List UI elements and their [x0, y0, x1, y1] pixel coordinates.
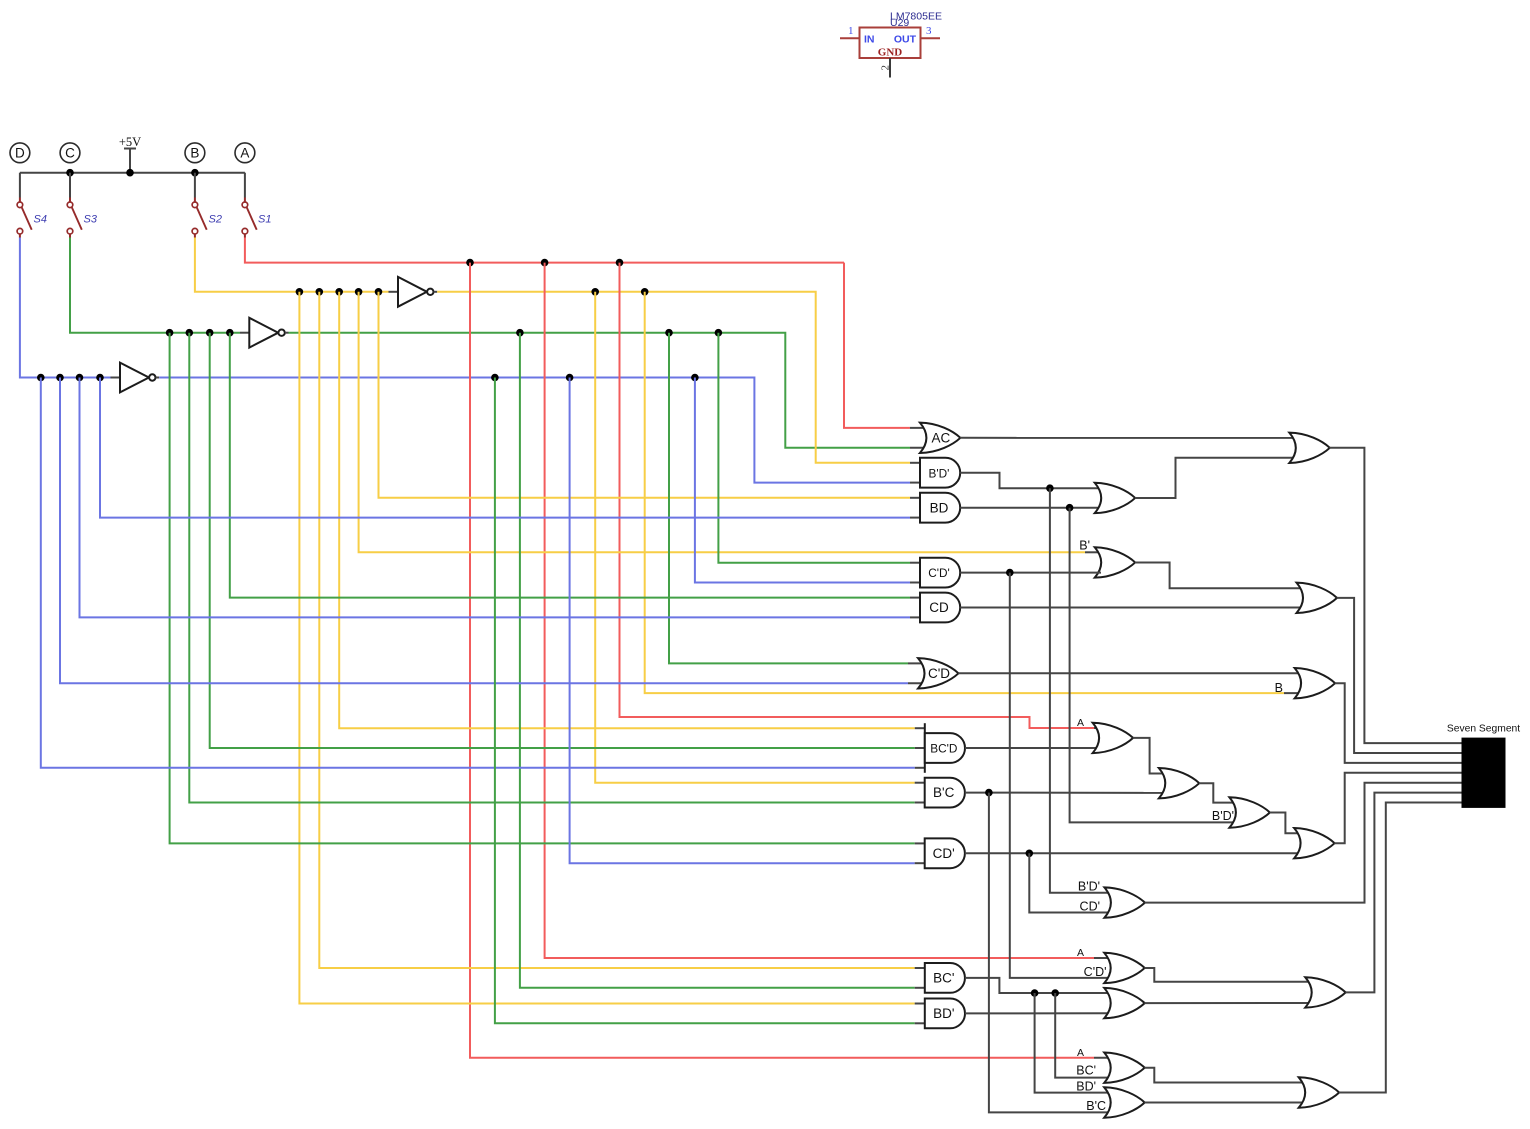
wire OR1 output up to OR7a [1135, 458, 1296, 498]
wire F3 output to 7seg pin6 [1345, 793, 1461, 993]
supply bus wire [20, 172, 245, 174]
svg-text:Seven Segment: Seven Segment [1447, 724, 1520, 735]
wire B' (yellow) inverter output bus [437, 292, 910, 463]
junction B' yellow at x595 [591, 288, 599, 296]
seven segment display [1447, 724, 1520, 808]
wire to OR cascade 2 [1133, 738, 1165, 774]
OR cascade gate 4 [1294, 828, 1335, 858]
inverter output stub (B') [434, 291, 438, 293]
svg-text:A: A [1077, 1047, 1084, 1059]
wire B'D' output [960, 473, 1101, 489]
junction B'D' output [1046, 484, 1054, 492]
svg-text:BD': BD' [1076, 1079, 1096, 1093]
AND gate BD' [925, 999, 965, 1029]
wire bus to switch (D column) [19, 173, 21, 198]
input terminal B [185, 143, 205, 163]
svg-text:C'D: C'D [928, 666, 950, 681]
wire C (green) branch to BC'D gate [210, 333, 915, 748]
inverter input stub (D) [111, 377, 121, 379]
svg-text:S4: S4 [34, 214, 47, 226]
BD' gate input stubs [915, 1003, 925, 1005]
pin 2 (GND) of U29 [880, 58, 892, 78]
junction BC' at x1034 [1031, 989, 1039, 997]
wire to OR F3 [1144, 1002, 1311, 1004]
wire B (yellow) branch to BC' gate [319, 292, 914, 968]
junction B yellow at x319 [316, 288, 324, 296]
wire A stub into OR gate [1094, 957, 1112, 959]
wire D (blue) from S4 to inverter input bus [20, 238, 111, 378]
wire B'C output to OR cascade 2 [965, 792, 1165, 794]
switch S2 [192, 198, 222, 238]
wire branch down to OR gate A+BC' [1055, 993, 1110, 1078]
wire bus to switch (C column) [69, 173, 71, 198]
svg-text:D: D [15, 146, 25, 161]
OR gate F3 [1305, 977, 1346, 1007]
inverter input stub (C) [240, 332, 249, 334]
wire D' (blue) branch to C'D' gate [695, 378, 910, 583]
AND gate CD [920, 593, 960, 623]
B'C gate input stubs [915, 782, 925, 784]
junction C green at x169 [166, 329, 174, 337]
CD' gate input stubs [915, 842, 925, 844]
OR gate B'D'+CD' [1104, 887, 1145, 917]
OR gate AC [920, 423, 961, 453]
inverter output stub (C') [285, 332, 289, 334]
input terminal A [235, 143, 255, 163]
wire output to 7seg pin5 [1145, 783, 1462, 903]
wire BD branch down to OR cascade [1070, 508, 1236, 823]
svg-text:+5V: +5V [119, 135, 141, 149]
CD gate input stubs [910, 597, 920, 599]
junction D' at x494 (green wire) [491, 374, 499, 382]
AC gate input stubs [910, 427, 927, 429]
junction A red at x619 [616, 259, 624, 267]
wire to OR F3 [1144, 968, 1311, 982]
junction BD output [1066, 504, 1074, 512]
svg-text:A: A [240, 146, 249, 161]
AND gate CD' [925, 838, 965, 868]
wire BD output to OR1 [960, 507, 1101, 509]
junction B yellow at x299 [296, 288, 304, 296]
svg-text:IN: IN [864, 34, 875, 46]
wire branch down to OR gate BD'+B'C [1035, 993, 1111, 1093]
junction C green at x189 [186, 329, 194, 337]
junction C' green at x519 [516, 329, 524, 337]
input terminal D [10, 143, 30, 163]
svg-text:C'D': C'D' [1084, 965, 1107, 979]
junction B yellow at x378 [375, 288, 383, 296]
junction on supply bus at B [191, 169, 199, 177]
wire B (yellow) branch to BD gate [379, 292, 911, 498]
wire 7a output to 7seg pin1 [1330, 448, 1462, 743]
junction D blue at x40 [37, 374, 45, 382]
svg-text:A: A [1077, 717, 1084, 729]
wire A stub into OR gate [1094, 1057, 1112, 1059]
wire to OR cascade 3 [1199, 783, 1236, 802]
wire ORB output down to OR7b [1135, 562, 1303, 588]
B' OR gate input stubs [1085, 551, 1101, 553]
wire A (red) branch to OR gate (A+BC') [470, 263, 1094, 1058]
junction D' blue at x694 [691, 374, 699, 382]
svg-text:B: B [190, 146, 199, 161]
wire B (yellow) branch to 7-seg OR gate [645, 292, 1284, 693]
junction B' yellow at x644 [641, 288, 649, 296]
wire G3 output to 7seg pin7 [1339, 803, 1462, 1093]
NOT gate U3 (B inverter) [398, 277, 427, 307]
junction B yellow at x339 [335, 288, 343, 296]
wire C'D output to OR7c [958, 672, 1302, 674]
svg-text:BD': BD' [933, 1006, 954, 1021]
wire A (red) drop to AC gate [844, 263, 910, 428]
wire D (blue) branch to BC'D gate [41, 378, 915, 768]
wire BC'D output to OR gate A+BC'D [965, 747, 1099, 749]
svg-text:BC': BC' [933, 971, 954, 986]
AND gate B'D' [920, 458, 960, 488]
wire C (green) branch to CD gate [230, 333, 910, 598]
junction C' green at x718 [715, 329, 723, 337]
wire C (green) branch to CD' gate [170, 333, 915, 844]
wire D (blue) branch to C'D gate [60, 378, 908, 684]
wire C (green) from S3 to inverter input bus [70, 238, 240, 333]
BD gate input stubs [910, 497, 920, 499]
OR gate A+C'D' [1104, 953, 1145, 983]
wire A stub into OR gate [1094, 727, 1101, 729]
OR gate G3 [1299, 1077, 1340, 1107]
svg-text:B'D': B'D' [1078, 880, 1100, 894]
junction CD' output [1026, 850, 1034, 858]
junction C' green at x669 [665, 329, 673, 337]
junction C green at x229 [226, 329, 234, 337]
OR gate 7b (ORB + CD) [1297, 583, 1338, 613]
AND gate B'C [925, 778, 965, 808]
C'D' gate input stubs [910, 562, 920, 564]
svg-text:A: A [1077, 947, 1084, 959]
svg-text:CD': CD' [1080, 900, 1100, 914]
OR gate 7c (C'D + B) [1295, 668, 1336, 698]
BC' gate input stubs [915, 967, 925, 969]
wire to OR cascade 4 [1270, 813, 1301, 834]
svg-text:S1: S1 [258, 214, 271, 226]
NOT gate U1 (D inverter) [120, 363, 149, 393]
+5V power symbol [119, 135, 141, 173]
AND gate C'D' [920, 558, 960, 588]
svg-text:2: 2 [880, 65, 892, 71]
wire (green) branch to BD' gate [495, 378, 915, 1024]
yellow B input stub [1284, 692, 1302, 694]
wire B (yellow) branch to B' OR gate [359, 292, 1085, 553]
wire 7b output to 7seg pin2 [1337, 598, 1462, 753]
svg-text:BD: BD [930, 500, 949, 515]
svg-text:AC: AC [932, 430, 951, 445]
junction on supply bus at +5V [126, 169, 134, 177]
AND gate BC'D (3-input) [925, 723, 965, 773]
switch S4 [17, 198, 47, 238]
junction C'D' output [1006, 569, 1014, 577]
wire bus to switch (A column) [244, 173, 246, 198]
pin 3 (OUT) of U29 [921, 25, 941, 38]
junction A red at x470 [466, 259, 474, 267]
B'D' gate input stubs [910, 462, 920, 464]
switch S3 [67, 198, 98, 238]
wire B' (yellow) branch to B'C gate [595, 292, 915, 783]
svg-text:3: 3 [926, 25, 932, 37]
wire CD' output to OR cascade 4 [965, 852, 1301, 854]
wire C' (green) branch to C'D' gate [718, 333, 910, 563]
wire C' (green) inverter output bus [289, 333, 911, 448]
OR gate B (B'+C'D') [1095, 547, 1136, 577]
svg-text:BC': BC' [1076, 1064, 1096, 1078]
wire cascade output to 7seg pin4 [1334, 773, 1461, 843]
OR gate A+BC'D [1093, 723, 1134, 753]
wire A (red) from S1 across the top [245, 238, 844, 263]
svg-text:B'D': B'D' [1212, 809, 1234, 823]
junction C green at x209 [206, 329, 214, 337]
wire D' (blue) inverter output bus [159, 378, 910, 483]
junction D' blue at x569 [566, 374, 574, 382]
wire D' (blue) branch to CD' gate [570, 378, 915, 864]
inverter output stub (D') [156, 377, 160, 379]
wire to OR G3 [1144, 1068, 1305, 1083]
wire D (blue) branch to BD gate [100, 378, 910, 518]
junction B yellow at x358 [355, 288, 363, 296]
junction BC' at x1055 [1051, 989, 1059, 997]
wire C (green) branch to B'C gate [189, 333, 914, 803]
wire D (blue) branch to CD gate [80, 378, 911, 618]
wire BD' output to OR gate BC'+BD' [965, 1012, 1111, 1014]
svg-text:CD: CD [929, 600, 949, 615]
wire B (yellow) branch to BC'D gate [339, 292, 915, 728]
C'D gate input stubs [908, 662, 925, 664]
wire 7c output to 7seg pin3 [1335, 683, 1462, 763]
wire B'D' to OR gate B'D'+CD' [1050, 488, 1111, 893]
inverter input stub (B) [389, 291, 399, 293]
junction B'C output [985, 789, 993, 797]
junction A red at x544 [541, 259, 549, 267]
AND gate BD [920, 493, 960, 523]
wire AC output to OR7a [960, 437, 1296, 439]
OR gate BC'+BD' [1104, 988, 1145, 1018]
svg-text:BC'D: BC'D [930, 742, 957, 756]
svg-text:GND: GND [878, 47, 903, 59]
OR cascade gate 3 [1229, 797, 1270, 827]
svg-text:S2: S2 [209, 214, 222, 226]
OR gate BD'+B'C [1104, 1087, 1145, 1117]
svg-text:C'D': C'D' [928, 566, 950, 580]
wire B (yellow) branch to BD' gate [299, 292, 914, 1004]
wire A (red) branch to OR gate (A+C'D') [545, 263, 1094, 958]
switch S1 [242, 198, 271, 238]
svg-text:B: B [1275, 681, 1283, 695]
wire bus to switch (B column) [194, 173, 196, 198]
wire B (yellow) from S2 to inverter input bus [195, 238, 389, 292]
svg-text:1: 1 [848, 25, 854, 37]
OR cascade gate 2 [1159, 768, 1200, 798]
wire CD' branch down to OR gate B'D'+CD' [1029, 853, 1110, 912]
wire to OR G3 [1144, 1102, 1305, 1104]
wire C'D' branch down to OR gate A+C'D' [1010, 573, 1111, 978]
junction D blue at x60 [56, 374, 64, 382]
pin 1 (IN) of U29 [840, 25, 860, 38]
svg-text:C: C [65, 146, 75, 161]
svg-text:B'C: B'C [1086, 1099, 1106, 1113]
junction D blue at x100 [96, 374, 104, 382]
svg-text:B'D': B'D' [929, 466, 950, 480]
svg-text:OUT: OUT [894, 34, 917, 46]
OR gate 7a (AC + OR1) [1289, 433, 1330, 463]
OR gate 1 (B'D'+BD) [1095, 483, 1136, 513]
wire A (red) branch to OR gate (A+BC'D) [620, 263, 1095, 728]
input terminal C [60, 143, 80, 163]
svg-text:B'C: B'C [933, 785, 955, 800]
wire C' (green) branch to BC' gate [520, 333, 915, 988]
NOT gate U2 (C inverter) [249, 318, 278, 348]
wire C'D' output to ORB [960, 572, 1101, 574]
junction D blue at x79 [76, 374, 84, 382]
svg-text:CD': CD' [933, 846, 955, 861]
OR gate A+BC' [1104, 1053, 1145, 1083]
BC'D gate input stubs [915, 727, 925, 729]
wire B'C branch down to OR gate BD'+B'C [989, 793, 1111, 1113]
voltage regulator U29 LM7805EE [860, 11, 942, 59]
wire C' (green) branch to C'D gate [669, 333, 908, 664]
AND gate BC' [925, 963, 965, 993]
wire CD output to OR7b [960, 607, 1303, 609]
wire BC' output step to OR gate BC'+BD' [965, 978, 1111, 993]
svg-text:S3: S3 [84, 214, 98, 226]
OR gate C'D [918, 658, 959, 688]
svg-text:B': B' [1079, 539, 1090, 553]
junction on supply bus at C [66, 169, 74, 177]
